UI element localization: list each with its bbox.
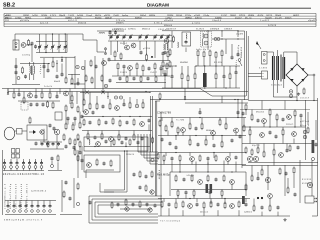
svg-text:.87n8p: .87n8p — [203, 15, 210, 17]
component bnd — [159, 94, 161, 98]
arrow out2 — [314, 201, 317, 203]
capacitor C47 — [35, 96, 38, 97]
resistor R19 — [140, 77, 142, 81]
capacitor C96b — [103, 163, 106, 164]
transistor TS7 — [28, 93, 33, 98]
resistor R116 — [287, 188, 289, 192]
capacitor C33 — [119, 78, 122, 79]
ground gnd1 — [297, 93, 300, 96]
svg-text:3.86.p: 3.86.p — [154, 23, 163, 25]
resistor R22 — [197, 51, 199, 56]
resistor R73 — [201, 124, 203, 129]
driver box — [27, 125, 47, 140]
wire mx bottom — [84, 146, 150, 148]
switch box SK2 — [262, 71, 268, 79]
wire ps bottom — [273, 96, 297, 98]
switch S16 — [37, 201, 39, 205]
variable capacitor C24 — [145, 36, 148, 37]
capacitor C75 — [169, 143, 172, 144]
box corner top — [155, 100, 160, 102]
wire fm v2 — [56, 60, 58, 72]
transistor TS29 — [198, 180, 203, 185]
resistor R99 — [129, 140, 131, 144]
resistor R97 — [77, 184, 79, 189]
resistor R27 — [162, 62, 164, 66]
resistor R54 — [89, 104, 91, 109]
switch S18 — [49, 201, 51, 205]
switch S5 — [29, 159, 31, 163]
capacitor C17 — [109, 32, 112, 33]
svg-text:M6kkC4: M6kkC4 — [142, 28, 151, 30]
capacitor C108 — [209, 192, 212, 193]
capacitor C13 — [95, 66, 98, 67]
capacitor C68 — [94, 137, 97, 138]
bus vertical vb1 — [244, 31, 246, 100]
resistor R13 — [117, 64, 119, 69]
capacitor C124 — [277, 207, 280, 208]
wire bnd2 — [185, 102, 248, 104]
resistor R89 — [249, 130, 251, 135]
resistor R95 — [273, 150, 275, 155]
svg-text:x89n694: x89n694 — [164, 20, 174, 22]
capacitor C69 — [125, 138, 128, 139]
transistor TS9 — [40, 130, 44, 134]
switch S11 — [7, 201, 9, 205]
wire mx top — [80, 91, 150, 93]
wire out v — [267, 165, 269, 190]
resistor R45 — [65, 124, 67, 129]
elco C93 tall — [312, 140, 315, 153]
capacitor C105 — [183, 179, 186, 180]
svg-text:46n03: 46n03 — [54, 81, 61, 83]
capacitor C82 — [171, 158, 174, 159]
svg-text:C6px3.0: C6px3.0 — [212, 20, 222, 22]
wire gang bottom — [110, 60, 170, 62]
svg-text:.0k2n: .0k2n — [236, 59, 238, 68]
svg-text:9.5247: 9.5247 — [221, 15, 228, 17]
resistor R71 — [177, 128, 179, 133]
bridge diode D4 — [290, 68, 293, 71]
capacitor C2 — [34, 46, 37, 47]
resistor R65 — [101, 134, 103, 139]
switch S14 — [25, 201, 27, 205]
wire bridge bottom — [296, 86, 298, 91]
resistor R24 — [209, 51, 211, 56]
bundle diag1 — [200, 89, 246, 97]
wire mx mesh — [83, 92, 85, 100]
capacitor C28 — [140, 52, 143, 53]
capacitor C49 — [30, 104, 33, 105]
capacitor C50 — [36, 104, 39, 105]
svg-text:2x9x2k: 2x9x2k — [44, 86, 53, 88]
transistor TS16 — [211, 131, 216, 136]
wire drv — [30, 148, 64, 150]
capacitor C121 — [245, 204, 248, 205]
connector box out — [305, 196, 314, 203]
switch S3 — [16, 159, 18, 163]
capacitor C62 — [102, 106, 105, 107]
resistor R36 — [23, 98, 25, 103]
resistor R79 — [221, 142, 223, 147]
transformer T1 secondary — [33, 66, 36, 74]
elco C45 — [289, 94, 293, 98]
wire mesh v6 — [163, 199, 165, 203]
resistor R18 — [126, 77, 128, 81]
resistor R115 — [245, 185, 247, 190]
capacitor C88 — [269, 132, 272, 133]
svg-text:pCR90: pCR90 — [143, 48, 151, 50]
svg-text:608741: 608741 — [195, 18, 202, 20]
wire pa bottom — [242, 165, 314, 167]
transistor TS23 — [292, 132, 297, 137]
wire fm inner bus — [36, 41, 67, 43]
capacitor C37 — [231, 57, 234, 58]
transistor TS31 — [265, 177, 270, 182]
transistor TS17 — [234, 128, 239, 133]
switch bank2 top — [5, 200, 56, 202]
wire pa mesh2 — [249, 127, 251, 130]
svg-text:43p77C: 43p77C — [252, 145, 260, 147]
wire ts1 link — [26, 45, 32, 62]
capacitor C107 — [185, 192, 188, 193]
wire mesh v7 — [168, 208, 170, 216]
switch bank2 bottom — [5, 214, 56, 216]
variable capacitor C20 — [116, 36, 119, 37]
svg-text:1nR50.: 1nR50. — [32, 15, 39, 17]
antenna terminal A1 — [15, 42, 17, 44]
resistor R82 — [199, 156, 201, 160]
coil X1 — [85, 91, 89, 95]
transformer T1 leads — [29, 62, 31, 66]
capacitor C112 — [168, 204, 171, 205]
svg-text:R8px28: R8px28 — [59, 15, 66, 17]
wire tuning drop 5 — [64, 34, 66, 45]
capacitor C80 — [213, 145, 216, 146]
bus vertical vb3 — [247, 36, 249, 100]
wire fm left vert — [15, 58, 17, 84]
svg-text:kpC.k3: kpC.k3 — [40, 23, 49, 25]
transistor TS27 — [96, 142, 101, 147]
diode D10 — [33, 130, 36, 134]
capacitor C87 — [300, 115, 303, 116]
variable capacitor C22 — [129, 36, 132, 37]
resistor R87 — [276, 115, 278, 120]
svg-text:09kM7C: 09kM7C — [116, 23, 124, 25]
resistor R83 — [215, 156, 217, 160]
resistor R26 — [221, 51, 223, 56]
svg-text:C30M1789: C30M1789 — [157, 111, 172, 115]
wire lcol mesh — [65, 111, 67, 124]
capacitor C59 — [35, 143, 38, 144]
switch S15 — [31, 201, 33, 205]
transistor TS8 — [64, 91, 69, 96]
resistor R64 — [87, 134, 89, 139]
diode D2 — [151, 56, 153, 58]
resistor R112 — [261, 170, 263, 175]
wire gang mesh — [114, 58, 116, 60]
svg-text:46536559: 46536559 — [166, 29, 177, 31]
resistor R43 — [71, 103, 73, 108]
resistor R60 — [98, 120, 100, 125]
svg-text:347428: 347428 — [268, 25, 277, 27]
capacitor C123 — [261, 207, 264, 208]
svg-text:314R23: 314R23 — [196, 29, 205, 31]
fm box right edge — [66, 34, 68, 53]
svg-text:86p66n: 86p66n — [95, 18, 102, 20]
bundle down x150 — [150, 96, 152, 152]
capacitor C141 — [154, 205, 157, 206]
resistor R33 — [229, 74, 231, 79]
resistor R113 — [279, 169, 281, 174]
capacitor C83 — [207, 158, 210, 159]
svg-text:M0Mnn6: M0Mnn6 — [206, 130, 215, 132]
wire bundle pair — [104, 151, 125, 190]
terminal ring1 — [307, 182, 312, 187]
small box frame2 — [84, 155, 120, 172]
svg-text:C5x6R.: C5x6R. — [113, 15, 120, 17]
header rule — [3, 7, 311, 9]
svg-text:29629: 29629 — [120, 72, 128, 74]
wire bnd1 — [150, 99, 248, 101]
capacitor C56 — [53, 128, 56, 129]
ift L3 — [163, 44, 166, 50]
svg-text:084016: 084016 — [78, 23, 87, 25]
transistor TS28 — [87, 163, 92, 168]
transistor TS1 — [21, 43, 26, 48]
bundle staircase — [138, 134, 158, 152]
resistor R51 — [77, 135, 79, 140]
bottom bus low — [158, 215, 290, 217]
junction am1 — [109, 30, 110, 31]
transistor TS32 — [268, 194, 273, 199]
transistor TS2 — [102, 61, 107, 66]
resistor R123 — [210, 202, 212, 207]
resistor R3 — [52, 62, 54, 67]
resistor R63 — [133, 120, 135, 125]
resistor R28 — [169, 62, 171, 66]
wire mix mesh — [117, 70, 119, 76]
capacitor C72 — [237, 112, 240, 113]
transformer T5 leads — [267, 52, 273, 56]
resistor R105 — [175, 176, 177, 181]
terminal AM2 — [104, 52, 106, 54]
capacitor C34 — [133, 78, 136, 79]
resistor R90 — [282, 130, 284, 135]
ift can T4 dashed — [201, 32, 212, 48]
coil L4b — [177, 42, 180, 48]
wire fm extra — [71, 74, 73, 79]
wire nest1 — [89, 196, 162, 223]
svg-text:137x822: 137x822 — [114, 28, 124, 30]
mains switch SK1 — [238, 59, 241, 62]
elco C15 — [104, 84, 108, 88]
pa dashed rail — [240, 109, 310, 111]
resistor R4 — [65, 78, 67, 83]
wire mesh v4 — [175, 136, 177, 141]
junction jx1 — [124, 150, 125, 151]
resistor R120 — [182, 202, 184, 207]
wire tuning drop low 5 — [64, 49, 66, 52]
bus h1 — [2, 88, 200, 90]
wire fm top bus — [15, 34, 97, 52]
wire if mid — [212, 38, 245, 40]
transformer T1 primary — [29, 66, 32, 74]
svg-text:63367n: 63367n — [285, 18, 292, 20]
coil L4 — [202, 33, 205, 39]
antenna input box — [13, 40, 19, 50]
transistor TS10 — [54, 129, 60, 135]
transistor TS5 — [128, 66, 133, 71]
svg-text:97765x: 97765x — [185, 15, 192, 17]
bridge rectifier frame — [286, 64, 308, 86]
wire af drops2 — [167, 131, 169, 136]
resistor R75 — [225, 124, 227, 129]
variable capacitor C6 — [58, 47, 61, 48]
elco pair dark 2 — [210, 184, 213, 193]
trimmer TC5 — [204, 41, 208, 45]
resistor R42 — [65, 106, 67, 111]
svg-text:23R6Rp8: 23R6Rp8 — [210, 28, 220, 30]
capacitor C98b — [139, 187, 142, 188]
capacitor C18 — [114, 32, 117, 33]
variable capacitor C5 — [51, 47, 54, 48]
resistor R29 — [181, 74, 183, 79]
bridge diode D6 — [290, 79, 293, 82]
resistor R76 — [243, 126, 245, 131]
diode D8 — [7, 93, 9, 95]
switch S17 — [43, 201, 45, 205]
wire fm v1 — [43, 58, 45, 78]
svg-text:n3ppx: n3ppx — [40, 64, 42, 74]
capacitor C78 — [231, 140, 234, 141]
svg-text:R2x1n5nC5Cx1p: R2x1n5nC5Cx1p — [10, 183, 12, 209]
svg-text:9065n3: 9065n3 — [140, 15, 147, 17]
capacitor C98 — [137, 142, 140, 143]
capacitor C94 — [69, 198, 72, 199]
bus vertical vb2 — [245, 31, 247, 96]
resistor R12 — [167, 52, 169, 57]
resistor R17 — [166, 64, 168, 69]
wire left edge low — [2, 150, 4, 215]
resistor R1 — [28, 41, 30, 45]
svg-text:R4C4n5: R4C4n5 — [176, 15, 183, 17]
wire if top — [162, 30, 238, 32]
capacitor C57 — [65, 146, 68, 147]
resistor R103 — [125, 200, 127, 205]
wire lb h — [171, 189, 246, 191]
capacitor C10 — [24, 76, 27, 77]
capacitor C96 — [105, 141, 108, 142]
pa right vert — [305, 100, 307, 160]
capacitor C130 — [41, 144, 44, 145]
resistor R39 — [71, 96, 73, 101]
capacitor C67 — [148, 120, 151, 121]
elco C90 — [303, 130, 307, 134]
switch bank1 bottom — [3, 170, 44, 172]
svg-text:5x7MCC: 5x7MCC — [128, 28, 136, 30]
trimmer TC3 — [81, 66, 84, 69]
svg-text:9n2006: 9n2006 — [77, 15, 84, 17]
resistor R101 — [139, 172, 141, 177]
capacitor C110 — [294, 194, 297, 195]
wire fm row bottom — [12, 84, 40, 86]
wire mix bottom — [112, 75, 170, 77]
wire tuning drop low 4 — [58, 49, 60, 52]
capacitor C71 — [199, 112, 202, 113]
bus h2 — [8, 91, 248, 93]
capacitor C84 — [235, 157, 238, 158]
resistor R77 — [189, 140, 191, 145]
transistor TS21 — [287, 115, 292, 120]
svg-text:1670Rk: 1670Rk — [41, 15, 48, 17]
svg-text:n4M4k9: n4M4k9 — [224, 28, 233, 30]
capacitor C92 — [286, 150, 289, 151]
resistor R125 — [224, 203, 226, 208]
resistor R25 — [215, 53, 217, 58]
resistor R68 — [159, 121, 161, 126]
svg-text:102C29: 102C29 — [266, 15, 273, 17]
transistor TS34 — [230, 204, 235, 209]
capacitor C46 — [18, 94, 21, 95]
resistor R62 — [119, 121, 121, 126]
resistor R14 — [136, 64, 138, 69]
resistor R100b — [110, 161, 112, 166]
capacitor C104 — [146, 204, 149, 205]
resistor R142 — [71, 79, 73, 83]
resistor R61 — [112, 119, 114, 124]
bridge diode D5 — [301, 68, 304, 71]
transistor TS15 — [181, 128, 186, 133]
elco C91 — [303, 135, 307, 139]
resistor R98 — [113, 140, 115, 144]
antenna terminal A2 — [15, 46, 17, 48]
wire l mesh — [23, 92, 25, 99]
diode D1 — [61, 60, 63, 62]
trimmer TC1 — [17, 77, 20, 80]
resistor R52 — [47, 142, 49, 146]
svg-text:p34730: p34730 — [104, 15, 111, 17]
resistor R23 — [203, 52, 205, 57]
wire bridge right — [308, 74, 313, 76]
capacitor C1 — [31, 43, 34, 44]
resistor R50 — [69, 139, 71, 144]
svg-text:Mnx455: Mnx455 — [256, 112, 265, 114]
capacitor C16 — [109, 80, 112, 81]
svg-text:p475n5: p475n5 — [300, 121, 310, 123]
transformer T5 winding1 — [273, 56, 275, 80]
svg-text:Ck947: Ck947 — [150, 72, 158, 74]
wire stubs lb — [177, 195, 179, 198]
wire v x103 — [102, 58, 104, 92]
wire tone h — [86, 169, 114, 171]
transformer T5 winding3 — [283, 57, 285, 79]
svg-text:0nx.kR: 0nx.kR — [275, 18, 282, 20]
svg-text:8R.9Rk: 8R.9Rk — [214, 62, 223, 64]
wire af bottom — [158, 164, 246, 166]
switch aux parts — [51, 165, 54, 168]
ground gnd2 — [283, 218, 286, 221]
capacitor C31 — [148, 68, 151, 69]
svg-text:286602: 286602 — [230, 15, 237, 17]
transformer T1 core — [30, 66, 32, 76]
wire col v — [69, 89, 71, 105]
svg-text:1pR361M.4: 1pR361M.4 — [31, 191, 47, 193]
svg-text:767.611088p0: 767.611088p0 — [160, 221, 181, 223]
resistor R137 — [307, 128, 309, 132]
resistor R131 — [269, 206, 271, 210]
svg-text:6.79C0: 6.79C0 — [50, 15, 57, 17]
trimmer TC2 — [76, 65, 79, 68]
